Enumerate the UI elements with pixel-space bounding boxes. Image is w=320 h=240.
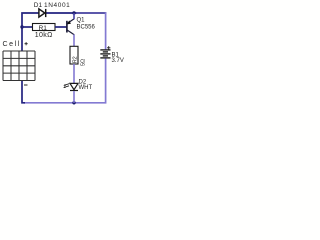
transistor collector pin: [73, 35, 75, 47]
svg-text:Cell: Cell: [3, 41, 21, 48]
svg-text:BC556: BC556: [77, 25, 96, 31]
diode D1: [39, 9, 46, 17]
transistor emitter arrow: [67, 20, 71, 24]
wire R2 to LED: [73, 64, 75, 83]
LED D2: [70, 83, 78, 90]
transistor Q1: [67, 19, 74, 35]
svg-text:3.7V: 3.7V: [112, 58, 124, 64]
resistor R2: [70, 46, 78, 64]
wire rail to R1: [22, 26, 33, 28]
transistor emitter pin: [73, 13, 75, 19]
wire R1 to base: [55, 26, 67, 28]
battery plus sign: [107, 46, 110, 49]
svg-text:Q1: Q1: [77, 18, 86, 24]
cell minus terminal: [24, 84, 28, 86]
junction node bottom: [72, 101, 75, 104]
cell plus terminal: [25, 42, 28, 45]
wire bottom left corner: [22, 81, 25, 103]
svg-text:10kΩ: 10kΩ: [35, 32, 53, 39]
svg-text:R2: R2: [72, 56, 78, 63]
wire left rail: [22, 13, 39, 51]
battery B1: [100, 50, 110, 58]
svg-text:D1: D1: [34, 2, 43, 9]
junction node top: [72, 11, 75, 14]
svg-text:R1: R1: [39, 25, 48, 32]
LED light arrow 2: [63, 86, 69, 88]
wire battery bottom to rail: [24, 59, 106, 103]
resistor R1: [33, 24, 56, 31]
svg-text:WHT: WHT: [79, 85, 93, 91]
solar cell Cell grid: [3, 51, 35, 81]
svg-text:1N4001: 1N4001: [44, 2, 70, 9]
wire junction to battery top: [76, 12, 106, 14]
wire LED to rail: [73, 91, 75, 103]
junction node left: [20, 25, 23, 28]
LED light arrow 1: [63, 84, 69, 86]
wire diode to junction: [45, 12, 76, 14]
svg-text:5Ω: 5Ω: [80, 59, 86, 66]
